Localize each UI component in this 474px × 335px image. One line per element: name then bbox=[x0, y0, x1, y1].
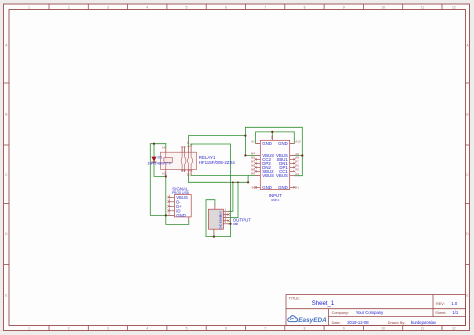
svg-text:GND: GND bbox=[176, 213, 186, 218]
svg-text:12: 12 bbox=[452, 326, 456, 330]
svg-text:5: 5 bbox=[186, 326, 188, 330]
svg-text:4: 4 bbox=[146, 5, 148, 9]
svg-text:A5: A5 bbox=[295, 168, 299, 172]
svg-text:A4: A4 bbox=[295, 172, 299, 176]
svg-text:EasyEDA: EasyEDA bbox=[298, 317, 327, 324]
svg-text:3: 3 bbox=[107, 326, 109, 330]
svg-text:7: 7 bbox=[264, 5, 266, 9]
svg-text:usb c: usb c bbox=[271, 198, 279, 202]
svg-text:D-: D- bbox=[219, 214, 223, 217]
svg-text:1: 1 bbox=[28, 326, 30, 330]
svg-text:1.0: 1.0 bbox=[451, 301, 458, 306]
svg-text:9: 9 bbox=[343, 5, 345, 9]
svg-text:1/1: 1/1 bbox=[452, 310, 458, 315]
svg-text:3: 3 bbox=[107, 5, 109, 9]
svg-text:GND: GND bbox=[219, 224, 223, 230]
svg-text:8: 8 bbox=[304, 326, 306, 330]
svg-text:GND: GND bbox=[278, 141, 288, 146]
svg-text:14: 14 bbox=[162, 146, 166, 150]
svg-text:VBUS: VBUS bbox=[262, 173, 274, 178]
svg-text:7: 7 bbox=[264, 326, 266, 330]
svg-text:REV:: REV: bbox=[436, 302, 445, 306]
svg-text:10: 10 bbox=[381, 326, 385, 330]
svg-text:8: 8 bbox=[304, 5, 306, 9]
svg-text:1N4148W-7-F: 1N4148W-7-F bbox=[147, 161, 172, 166]
svg-text:11: 11 bbox=[421, 5, 425, 9]
svg-text:11: 11 bbox=[421, 326, 425, 330]
svg-text:2: 2 bbox=[68, 326, 70, 330]
svg-text:Date:: Date: bbox=[332, 321, 341, 325]
svg-text:B9: B9 bbox=[251, 172, 255, 176]
svg-text:10: 10 bbox=[381, 5, 385, 9]
svg-text:GND: GND bbox=[262, 141, 272, 146]
svg-text:D+: D+ bbox=[219, 217, 223, 221]
svg-text:B12: B12 bbox=[252, 186, 258, 190]
svg-text:Your Company: Your Company bbox=[356, 310, 384, 315]
svg-text:6: 6 bbox=[225, 326, 227, 330]
svg-text:1: 1 bbox=[28, 5, 30, 9]
svg-text:Drawn By:: Drawn By: bbox=[388, 321, 406, 325]
svg-text:GND: GND bbox=[262, 185, 272, 190]
svg-text:12: 12 bbox=[187, 173, 191, 177]
svg-text:GND: GND bbox=[278, 185, 288, 190]
svg-text:9: 9 bbox=[343, 326, 345, 330]
svg-text:2019-12-08: 2019-12-08 bbox=[347, 320, 369, 325]
svg-text:A12: A12 bbox=[295, 140, 301, 144]
svg-text:Company:: Company: bbox=[332, 311, 349, 315]
svg-text:A2: A2 bbox=[162, 172, 166, 176]
svg-text:11: 11 bbox=[187, 141, 190, 145]
svg-text:burdejaroslav: burdejaroslav bbox=[411, 320, 437, 325]
svg-text:5: 5 bbox=[186, 5, 188, 9]
svg-text:2: 2 bbox=[68, 5, 70, 9]
svg-text:S1: S1 bbox=[270, 136, 274, 140]
svg-text:usb: usb bbox=[233, 222, 238, 226]
svg-text:ID: ID bbox=[219, 220, 223, 223]
svg-text:Sheet:: Sheet: bbox=[435, 311, 446, 315]
svg-text:A1: A1 bbox=[251, 140, 255, 144]
svg-text:12: 12 bbox=[452, 5, 456, 9]
svg-text:4: 4 bbox=[146, 326, 148, 330]
svg-text:D1: D1 bbox=[158, 155, 163, 160]
svg-text:6: 6 bbox=[225, 5, 227, 9]
svg-text:VBUS: VBUS bbox=[276, 173, 288, 178]
svg-text:Sheet_1: Sheet_1 bbox=[312, 301, 335, 307]
svg-text:HF115F/005-2ZS4: HF115F/005-2ZS4 bbox=[199, 160, 236, 165]
svg-text:TITLE:: TITLE: bbox=[289, 297, 300, 301]
svg-text:A1: A1 bbox=[295, 186, 299, 190]
